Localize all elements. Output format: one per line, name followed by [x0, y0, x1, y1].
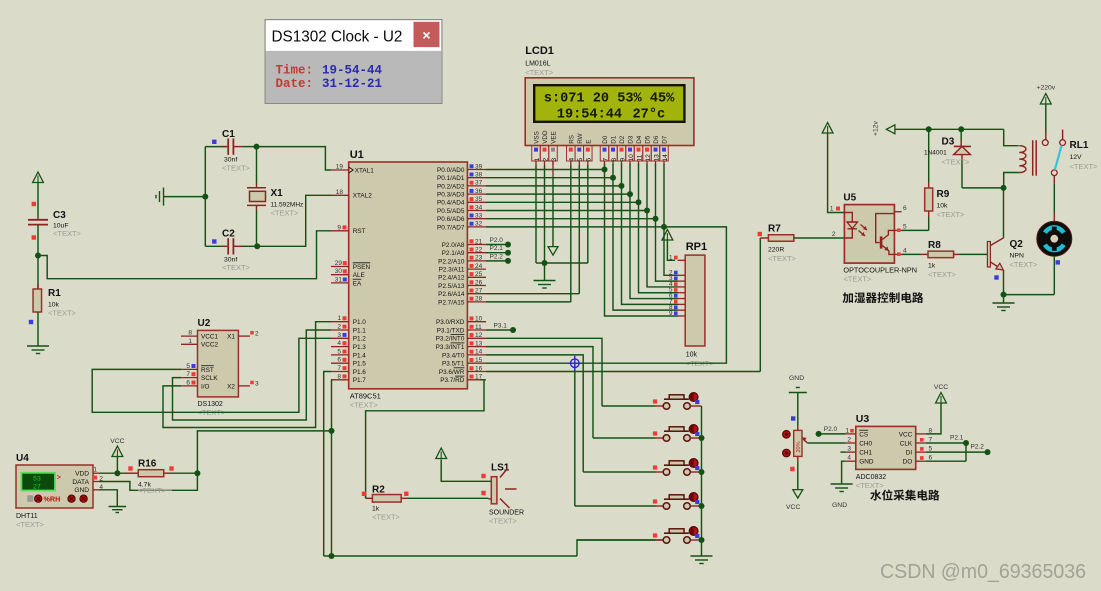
svg-text:ADC0832: ADC0832	[856, 474, 886, 481]
svg-text:<TEXT>: <TEXT>	[53, 229, 82, 238]
svg-text:P3.3/INT1: P3.3/INT1	[436, 344, 465, 351]
svg-text:LM016L: LM016L	[525, 61, 550, 68]
svg-text:R9: R9	[937, 189, 950, 200]
svg-text:×: ×	[422, 27, 430, 43]
svg-text:14: 14	[662, 154, 669, 162]
svg-text:1: 1	[188, 338, 192, 345]
svg-text:1N4001: 1N4001	[924, 150, 947, 157]
svg-text:%RH: %RH	[44, 494, 61, 503]
svg-text:RL1: RL1	[1070, 140, 1089, 151]
svg-text:D6: D6	[653, 135, 660, 144]
svg-text:+220v: +220v	[1037, 85, 1056, 92]
svg-text:P2.3/A11: P2.3/A11	[439, 267, 465, 274]
svg-text:<TEXT>: <TEXT>	[1070, 162, 1099, 171]
svg-text:38: 38	[475, 172, 483, 179]
svg-text:RW: RW	[577, 133, 584, 143]
svg-text:27°c: 27°c	[633, 108, 666, 123]
svg-text:7: 7	[337, 365, 341, 372]
svg-text:CS: CS	[859, 431, 868, 438]
svg-text:<TEXT>: <TEXT>	[48, 309, 77, 318]
svg-text:20%: 20%	[796, 441, 802, 452]
svg-text:39: 39	[475, 163, 483, 170]
svg-text:1: 1	[93, 467, 97, 474]
svg-text:9: 9	[669, 310, 673, 317]
svg-text:P3.5/T1: P3.5/T1	[442, 361, 465, 368]
svg-text:XTAL1: XTAL1	[355, 167, 375, 174]
svg-text:P1.1: P1.1	[353, 327, 367, 334]
svg-text:10k: 10k	[937, 203, 949, 210]
svg-text:Time:: Time:	[276, 64, 314, 78]
svg-text:24: 24	[475, 263, 483, 270]
svg-text:P3.1/TXD: P3.1/TXD	[437, 327, 465, 334]
svg-text:5: 5	[186, 363, 190, 370]
svg-text:3: 3	[847, 446, 851, 453]
svg-text:27: 27	[475, 288, 483, 295]
svg-text:5: 5	[903, 224, 907, 231]
svg-text:6: 6	[186, 379, 190, 386]
svg-text:OPTOCOUPLER-NPN: OPTOCOUPLER-NPN	[843, 266, 917, 275]
svg-text:RST: RST	[201, 367, 214, 374]
svg-text:13: 13	[475, 340, 483, 347]
svg-text:NPN: NPN	[1010, 253, 1024, 260]
svg-text:1: 1	[337, 315, 341, 322]
svg-text:VCC2: VCC2	[201, 342, 218, 349]
svg-text:DHT11: DHT11	[16, 513, 38, 520]
svg-text:19-54-44: 19-54-44	[322, 64, 383, 78]
svg-text:GND: GND	[832, 502, 847, 509]
svg-text:D3: D3	[628, 135, 635, 144]
svg-text:D7: D7	[662, 135, 669, 144]
svg-text:P3.4/T0: P3.4/T0	[442, 352, 465, 359]
svg-text:D3: D3	[942, 137, 955, 148]
svg-text:CH0: CH0	[859, 440, 872, 447]
svg-text:21: 21	[475, 238, 483, 245]
svg-text:VDD: VDD	[542, 130, 549, 144]
svg-text:VCC1: VCC1	[201, 334, 218, 341]
svg-text:C2: C2	[222, 229, 235, 240]
svg-text:7: 7	[186, 371, 190, 378]
svg-text:<TEXT>: <TEXT>	[350, 400, 379, 409]
svg-text:X1: X1	[227, 334, 235, 341]
svg-text:SCLK: SCLK	[201, 375, 218, 382]
svg-text:LCD1: LCD1	[525, 45, 554, 57]
svg-text:18: 18	[336, 189, 344, 196]
svg-text:6: 6	[337, 357, 341, 364]
svg-text:32: 32	[475, 221, 483, 228]
svg-text:34: 34	[475, 204, 483, 211]
svg-text:ALE: ALE	[353, 272, 365, 279]
svg-text:10k: 10k	[686, 352, 698, 359]
svg-text:12: 12	[475, 332, 483, 339]
svg-text:6: 6	[586, 158, 593, 162]
svg-text:P2.6/A14: P2.6/A14	[438, 291, 465, 298]
svg-text:P2.0/A8: P2.0/A8	[442, 242, 465, 249]
svg-text:C3: C3	[53, 210, 66, 221]
svg-text:28: 28	[475, 296, 483, 303]
svg-text:2: 2	[337, 324, 341, 331]
svg-text:P1.2: P1.2	[353, 336, 367, 343]
svg-text:P2.1/A9: P2.1/A9	[442, 250, 465, 257]
svg-text:P1.0: P1.0	[353, 319, 367, 326]
svg-text:2: 2	[832, 231, 836, 238]
svg-text:D5: D5	[645, 135, 652, 144]
svg-text:XTAL2: XTAL2	[353, 193, 373, 200]
svg-text:6: 6	[903, 205, 907, 212]
svg-text:1k: 1k	[928, 263, 936, 270]
svg-text:11.592MHz: 11.592MHz	[271, 202, 304, 209]
svg-text:U4: U4	[16, 453, 29, 464]
svg-text:16: 16	[475, 365, 483, 372]
svg-text:U3: U3	[856, 413, 870, 425]
svg-text:I/O: I/O	[201, 383, 210, 390]
svg-text:<TEXT>: <TEXT>	[222, 164, 251, 173]
svg-text:3: 3	[551, 158, 558, 162]
svg-text:3: 3	[255, 380, 259, 387]
svg-text:DO: DO	[903, 459, 913, 466]
svg-text:>: >	[57, 475, 61, 482]
svg-text:10: 10	[475, 316, 483, 323]
svg-text:3: 3	[337, 332, 341, 339]
svg-text:2: 2	[255, 331, 259, 338]
svg-text:1: 1	[845, 427, 849, 434]
svg-text:P0.7/AD7: P0.7/AD7	[437, 224, 465, 231]
svg-text:36: 36	[475, 188, 483, 195]
svg-text:AT89C51: AT89C51	[350, 391, 381, 400]
svg-text:D0: D0	[602, 135, 609, 144]
svg-text:1k: 1k	[372, 506, 380, 513]
svg-text:<TEXT>: <TEXT>	[843, 275, 872, 284]
svg-text:1: 1	[830, 206, 834, 213]
svg-text:P0.2/AD2: P0.2/AD2	[437, 183, 465, 190]
svg-text:<TEXT>: <TEXT>	[768, 254, 797, 263]
svg-text:VSS: VSS	[534, 131, 541, 144]
svg-text:RP1: RP1	[686, 241, 707, 253]
svg-text:P2.7/A15: P2.7/A15	[438, 299, 465, 306]
svg-text:<TEXT>: <TEXT>	[489, 517, 518, 526]
svg-text:X1: X1	[271, 188, 284, 199]
svg-text:R16: R16	[138, 459, 157, 470]
svg-text:19:54:44: 19:54:44	[557, 108, 622, 123]
svg-text:R7: R7	[768, 224, 781, 235]
svg-text:GND: GND	[859, 459, 874, 466]
svg-text:U5: U5	[843, 193, 856, 204]
svg-text:Q2: Q2	[1010, 239, 1024, 250]
svg-text:CLK: CLK	[900, 440, 913, 447]
svg-text:30nf: 30nf	[224, 157, 237, 164]
svg-text:P2.5/A13: P2.5/A13	[438, 283, 465, 290]
svg-text:EA: EA	[353, 280, 362, 287]
svg-text:4: 4	[847, 455, 851, 462]
svg-text:U1: U1	[350, 149, 364, 161]
svg-text:VCC: VCC	[786, 504, 800, 511]
svg-text:P3.0/RXD: P3.0/RXD	[436, 319, 465, 326]
svg-text:DI: DI	[906, 450, 913, 457]
svg-text:VCC: VCC	[934, 384, 948, 391]
svg-text:U2: U2	[198, 318, 211, 329]
svg-text:P2.4/A12: P2.4/A12	[438, 275, 465, 282]
svg-text:15: 15	[475, 357, 483, 364]
svg-text:P2.1: P2.1	[490, 245, 504, 252]
svg-text:P1.6: P1.6	[353, 369, 367, 376]
svg-text:31-12-21: 31-12-21	[322, 77, 382, 91]
svg-text:P1.3: P1.3	[353, 344, 367, 351]
svg-text:<TEXT>: <TEXT>	[937, 210, 966, 219]
svg-text:P2.2/A10: P2.2/A10	[438, 258, 465, 265]
svg-text:P2.1: P2.1	[950, 435, 964, 442]
svg-text:<TEXT>: <TEXT>	[16, 520, 45, 529]
svg-text:14: 14	[475, 349, 483, 356]
svg-text:P2.2: P2.2	[971, 444, 985, 451]
svg-text:R8: R8	[928, 240, 941, 251]
svg-text:GND: GND	[789, 375, 804, 382]
svg-text:26: 26	[475, 279, 483, 286]
svg-text:25: 25	[475, 271, 483, 278]
svg-text:P3.2/INT0: P3.2/INT0	[436, 336, 465, 343]
svg-text:PSEN: PSEN	[353, 264, 371, 271]
svg-text:29: 29	[335, 260, 343, 267]
svg-text:8: 8	[337, 373, 341, 380]
svg-text:P2.2: P2.2	[490, 253, 504, 260]
svg-text:22: 22	[475, 247, 483, 254]
svg-text:DS1302 Clock - U2: DS1302 Clock - U2	[272, 29, 403, 46]
svg-text:E: E	[585, 140, 592, 144]
svg-text:P0.1/AD1: P0.1/AD1	[437, 175, 465, 182]
svg-text:9: 9	[337, 224, 341, 231]
svg-text:30: 30	[335, 268, 343, 275]
svg-text:11: 11	[475, 324, 482, 331]
svg-text:DS1302: DS1302	[198, 401, 223, 408]
svg-text:DATA: DATA	[72, 479, 89, 486]
svg-text:R1: R1	[48, 288, 61, 299]
svg-text:P0.3/AD3: P0.3/AD3	[437, 192, 465, 199]
svg-text:<TEXT>: <TEXT>	[222, 263, 251, 272]
svg-text:R2: R2	[372, 485, 385, 496]
svg-text:4: 4	[903, 247, 907, 254]
svg-text:4: 4	[337, 340, 341, 347]
svg-text:VEE: VEE	[551, 131, 558, 144]
svg-text:35: 35	[475, 196, 483, 203]
svg-text:19: 19	[336, 164, 344, 171]
svg-text:8: 8	[188, 330, 192, 337]
svg-text:D1: D1	[611, 135, 618, 144]
svg-text:53: 53	[33, 475, 41, 483]
svg-text:5: 5	[337, 348, 341, 355]
svg-text:<TEXT>: <TEXT>	[856, 481, 885, 490]
svg-text:X2: X2	[227, 383, 235, 390]
svg-text:P2.0: P2.0	[824, 426, 838, 433]
svg-text:SOUNDER: SOUNDER	[489, 510, 524, 517]
svg-text:CSDN @m0_69365036: CSDN @m0_69365036	[880, 561, 1086, 583]
svg-text:RST: RST	[353, 228, 366, 235]
svg-text:220R: 220R	[768, 247, 784, 254]
svg-text:37: 37	[475, 180, 483, 187]
svg-text:P0.4/AD4: P0.4/AD4	[437, 200, 465, 207]
svg-text:23: 23	[475, 255, 483, 262]
svg-text:P2.0: P2.0	[490, 237, 504, 244]
svg-text:C1: C1	[222, 129, 235, 140]
svg-text:VCC: VCC	[110, 438, 124, 445]
svg-text:P3.6/WR: P3.6/WR	[439, 369, 465, 376]
svg-text:GND: GND	[74, 487, 89, 494]
svg-text:P3.1: P3.1	[494, 323, 508, 330]
svg-text:P1.4: P1.4	[353, 352, 367, 359]
svg-text:Date:: Date:	[276, 77, 314, 91]
svg-text:12V: 12V	[1070, 154, 1083, 161]
svg-text:+12v: +12v	[873, 120, 880, 136]
svg-text:P0.0/AD0: P0.0/AD0	[437, 167, 465, 174]
svg-text:33: 33	[475, 213, 483, 220]
svg-text:D4: D4	[636, 135, 643, 144]
svg-text:CH1: CH1	[859, 450, 872, 457]
svg-text:s:071 20 53% 45%: s:071 20 53% 45%	[544, 92, 675, 107]
svg-text:<TEXT>: <TEXT>	[271, 209, 300, 218]
svg-text:LS1: LS1	[491, 463, 510, 474]
svg-text:VDD: VDD	[75, 471, 89, 478]
svg-text:27: 27	[33, 483, 41, 491]
svg-text:10k: 10k	[48, 302, 60, 309]
svg-text:<TEXT>: <TEXT>	[1010, 260, 1039, 269]
svg-text:VCC: VCC	[899, 431, 913, 438]
svg-text:D2: D2	[619, 135, 626, 144]
svg-text:P1.7: P1.7	[353, 377, 367, 384]
svg-text:P0.6/AD6: P0.6/AD6	[437, 216, 465, 223]
svg-text:2: 2	[847, 437, 851, 444]
svg-text:<TEXT>: <TEXT>	[942, 158, 971, 167]
svg-text:P1.5: P1.5	[353, 361, 367, 368]
svg-text:RS: RS	[568, 135, 575, 144]
svg-text:P0.5/AD5: P0.5/AD5	[437, 208, 465, 215]
svg-text:31: 31	[335, 276, 343, 283]
svg-text:<TEXT>: <TEXT>	[928, 270, 957, 279]
svg-text:<TEXT>: <TEXT>	[372, 513, 401, 522]
svg-text:P3.7/RD: P3.7/RD	[440, 377, 465, 384]
svg-text:<TEXT>: <TEXT>	[525, 68, 554, 77]
